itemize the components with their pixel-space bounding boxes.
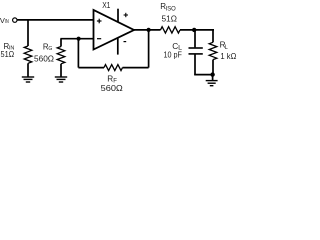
wire: feedback right vertical [148, 30, 150, 68]
wire: CL bottom lead [194, 54, 196, 75]
svg-text:G: G [48, 46, 52, 52]
ground (load) [206, 81, 218, 86]
positive supply pin [117, 9, 119, 23]
RF label [107, 74, 117, 84]
node VIN label [0, 16, 9, 25]
ground (RIN) [22, 77, 34, 82]
wire: CL top lead [194, 30, 196, 48]
svg-text:560Ω: 560Ω [34, 54, 54, 63]
node: ground junction dot [210, 72, 214, 76]
svg-text:51Ω: 51Ω [162, 13, 177, 23]
wire: feedback left vertical [77, 39, 79, 68]
positive supply label + [124, 13, 128, 17]
node: inverting input junction dot [77, 37, 81, 41]
wire: RL bottom lead [212, 60, 214, 75]
wire: tap down to RIN [27, 20, 29, 46]
wire: RL top lead [212, 30, 214, 42]
wire: feedback bottom rail right [123, 67, 149, 69]
resistor RL [209, 42, 217, 59]
node: load junction dot [192, 28, 196, 32]
svg-text:1 kΩ: 1 kΩ [220, 52, 236, 61]
RIN label [4, 42, 15, 52]
svg-text:51Ω: 51Ω [1, 50, 15, 59]
svg-text:IN: IN [5, 19, 9, 25]
input terminal circle [13, 18, 17, 22]
svg-text:ISO: ISO [166, 6, 177, 12]
wire: RISO to load node [180, 29, 214, 31]
wire: RG top to inverting input [60, 38, 93, 40]
resistor RG [57, 47, 65, 64]
capacitor CL [189, 48, 203, 54]
wire: feedback bottom rail left [78, 67, 104, 69]
inverting input marker - [97, 38, 101, 40]
resistor RIN [24, 46, 32, 63]
negative supply label - [124, 41, 127, 43]
wire: RG to ground [60, 64, 62, 77]
noninverting input marker + [97, 19, 102, 24]
wire: op-amp output [134, 29, 161, 31]
svg-text:10 pF: 10 pF [164, 51, 182, 60]
ground (RG) [55, 77, 67, 82]
negative supply pin [117, 38, 119, 55]
wire: RIN to ground [27, 63, 29, 77]
svg-text:560Ω: 560Ω [101, 83, 123, 93]
RG label [43, 42, 52, 52]
wire: RG lead down [60, 39, 62, 47]
wire: VIN terminal to op-amp noninverting input [17, 19, 93, 21]
CL label [172, 41, 183, 51]
RL label [220, 41, 229, 52]
wire: ground stub [212, 75, 214, 81]
node: output junction dot [147, 28, 151, 32]
wire: bottom rail CL to RL [194, 74, 213, 76]
op-amp U1 triangle [94, 10, 135, 50]
resistor RISO [161, 27, 181, 33]
svg-text:X1: X1 [102, 1, 111, 10]
resistor RF [104, 65, 123, 71]
RISO label [160, 2, 176, 12]
